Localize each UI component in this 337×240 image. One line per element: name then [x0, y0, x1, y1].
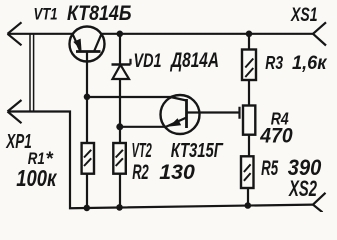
svg-text:470: 470 [259, 123, 292, 147]
svg-text:XS2: XS2 [288, 176, 318, 201]
svg-text:Д814А: Д814А [170, 49, 219, 72]
svg-text:VT2: VT2 [132, 140, 152, 162]
svg-text:R2: R2 [132, 160, 149, 184]
svg-text:R3: R3 [265, 53, 283, 73]
svg-text:R5: R5 [261, 157, 278, 180]
svg-text:КТ814Б: КТ814Б [67, 2, 132, 25]
svg-text:VD1: VD1 [134, 51, 162, 72]
svg-text:1,6к: 1,6к [292, 52, 328, 74]
svg-text:КТ315Г: КТ315Г [171, 140, 224, 162]
svg-text:VT1: VT1 [34, 6, 58, 24]
svg-text:XS1: XS1 [290, 5, 317, 26]
svg-text:100к: 100к [16, 165, 57, 191]
svg-text:130: 130 [159, 160, 195, 184]
